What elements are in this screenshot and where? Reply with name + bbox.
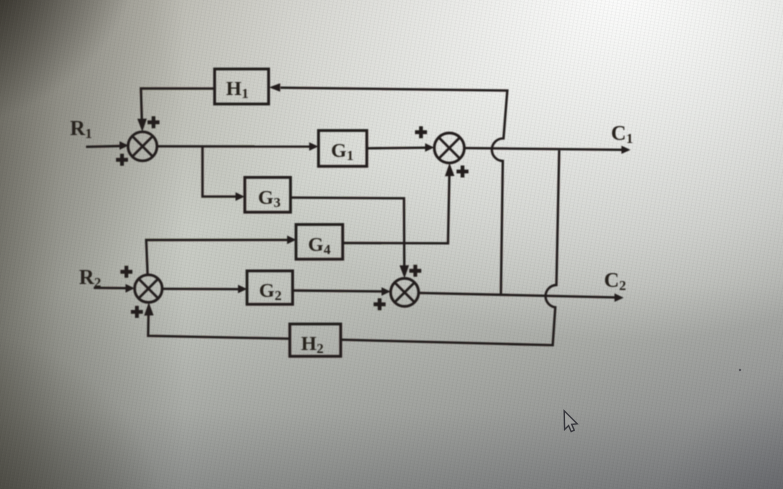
plus sign lower left of S4 [374, 298, 386, 310]
svg-text:C1: C1 [611, 121, 633, 147]
plus sign upper left of S3 [120, 266, 132, 278]
svg-text:C2: C2 [604, 268, 626, 294]
summing junction S1 [128, 132, 157, 161]
wire tap C1 down over C2 (hop) to H2 input [341, 150, 559, 345]
wire G3 output right then down into S4 [291, 198, 405, 268]
mouse cursor [564, 411, 577, 432]
block G4 [296, 225, 343, 260]
svg-text:R2: R2 [79, 265, 101, 291]
wire S2 to C1 output [464, 148, 622, 150]
wire G4 output right then up into S2 bottom [343, 174, 450, 243]
wire S3 top up and right into G4 [146, 240, 288, 275]
block G3 [245, 177, 291, 212]
node plus sign upper right of S1 [148, 116, 160, 128]
svg-text:H1: H1 [226, 78, 249, 102]
wire G1 to S2 [367, 146, 427, 149]
wire R1 input [86, 145, 122, 148]
plus sign lower right of S2 [457, 166, 469, 178]
svg-text:R1: R1 [70, 116, 92, 142]
wire H2 output left then up into S3 bottom [148, 315, 290, 339]
block H2 [290, 324, 341, 357]
svg-text:G3: G3 [258, 187, 281, 211]
wire S3 to G2 [162, 288, 239, 291]
wire R2 input [94, 287, 127, 290]
wire branch down to G3 [203, 147, 238, 197]
summing junction S3 [135, 275, 163, 303]
svg-text:G4: G4 [308, 234, 331, 258]
block G1 [319, 131, 367, 167]
wire tap C2 up over C1 (hop) to H1 input [281, 88, 508, 294]
dust speck [739, 369, 741, 371]
wire H1 output to summing junction S1 (left then down) [141, 88, 215, 121]
svg-text:G2: G2 [259, 280, 282, 304]
block G2 [247, 271, 293, 304]
wire S4 to C2 output [419, 293, 616, 298]
plus sign upper right of S4 [409, 265, 421, 277]
summing junction S2 [434, 133, 464, 163]
svg-text:H2: H2 [301, 333, 324, 357]
node plus sign lower left of S1 [116, 154, 128, 166]
svg-text:G1: G1 [331, 140, 354, 164]
wire G2 to S4 [293, 289, 383, 292]
plus sign lower left of S3 [131, 306, 143, 318]
summing junction S4 [391, 278, 419, 306]
block H1 [215, 69, 269, 104]
wire S1 to G1 [157, 145, 311, 148]
plus sign upper left of S2 [415, 126, 427, 138]
